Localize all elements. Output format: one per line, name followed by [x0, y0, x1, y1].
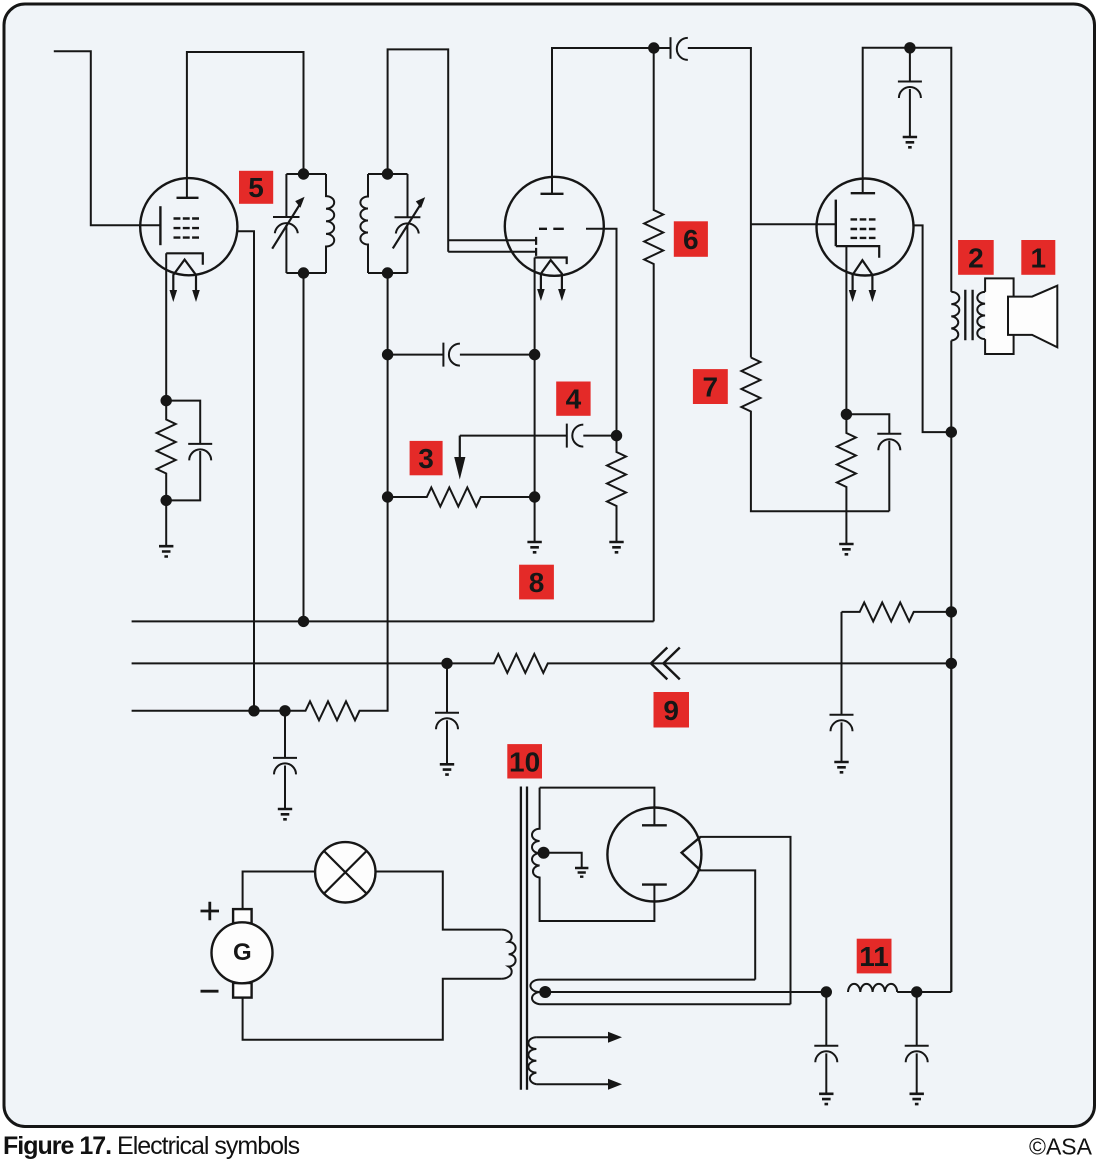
arrow onto potentiometer R3 — [459, 436, 461, 460]
V3 grid dashes — [851, 219, 876, 238]
svg-text:8: 8 — [529, 567, 545, 598]
output transformer T2 and speaker assembly — [951, 278, 1057, 354]
node tank2 top — [382, 168, 393, 179]
node bus3 V1 output — [248, 705, 259, 716]
inductor L1 — [326, 174, 334, 273]
V3 filament with emission arrows — [853, 260, 873, 291]
capacitor C3 coupling tank2 to V2 cathode — [388, 343, 444, 367]
node V3 plate bypass — [904, 42, 915, 53]
wire to tube V3 grid — [751, 223, 836, 225]
filter choke item 11 and capacitors — [814, 663, 951, 1104]
resistor R7 lower lead and cathode network V3 — [741, 358, 889, 512]
wire tube V2 plate to node — [552, 48, 671, 194]
node V2 cathode cap — [529, 349, 540, 360]
bus line 3 with resistor R-bus3 — [132, 273, 388, 720]
wire tube V2 cathode down — [534, 258, 536, 543]
tank circuit 2: inductor L2 + variable capacitor C2 — [360, 174, 425, 273]
resistor R6 line — [644, 48, 663, 621]
wire V1 cathode to ground — [165, 500, 167, 546]
HV center tap to ground — [544, 853, 582, 868]
node V2 plate coupling — [648, 42, 659, 53]
node tank1 bottom — [298, 267, 309, 278]
tube V1 pentode — [140, 178, 237, 302]
wire tube V1 plate to tank L1/C1 top — [187, 52, 304, 198]
rectifier tube V4 — [607, 808, 701, 902]
svg-text:4: 4 — [566, 384, 582, 415]
speaker driver body — [985, 278, 1014, 354]
wire speaker primary down to filter node — [950, 341, 952, 993]
node bus1 tank feed — [298, 616, 309, 627]
node HV center tap — [538, 847, 550, 859]
tube V2 triode-detector — [505, 177, 604, 301]
wire tube V3 plate output to speaker line — [913, 225, 951, 432]
V1 filament with emission arrows — [173, 260, 196, 291]
T2 primary winding — [951, 292, 959, 341]
capacitor C-k1 tube V1 cathode bypass — [166, 401, 212, 444]
ground below bus2 cap — [440, 764, 454, 774]
variable capacitor C2 — [395, 174, 421, 217]
wire generator + terminal to lamp — [243, 872, 316, 910]
svg-text:3: 3 — [418, 443, 434, 474]
node bus2 cap — [441, 658, 452, 669]
C1 adjustment arrow — [272, 203, 300, 248]
resistor R-k1 tube V1 cathode — [157, 401, 176, 501]
generator and pilot lamp loop — [201, 842, 502, 1040]
capacitor C-b2 below bus2 — [435, 663, 459, 712]
bus line 2 with resistor R9a — [132, 654, 952, 673]
V4 anode bars — [642, 825, 667, 884]
svg-text:G: G — [233, 939, 252, 966]
V3 grid bar — [835, 200, 837, 247]
capacitor C-coup top between V2 and V3 stages — [670, 37, 672, 59]
T1 core — [521, 787, 527, 1090]
T2 core — [965, 290, 972, 340]
T2 secondary winding on driver edge — [977, 292, 985, 339]
node tank1 top — [298, 168, 309, 179]
V2 heater bracket — [535, 258, 567, 265]
capacitor C4 — [566, 424, 568, 448]
V3 plate bar — [851, 192, 875, 194]
node speaker line upper — [946, 426, 957, 437]
svg-text:Figure 17. Electrical symbols: Figure 17. Electrical symbols — [3, 1132, 300, 1160]
tank1 box top and bottom — [286, 174, 326, 273]
T1 primary winding — [502, 930, 516, 979]
resistor R-k3 — [837, 414, 856, 544]
node pot left — [382, 491, 393, 502]
V1 heater bracket — [166, 253, 203, 264]
filter capacitor C-f1 — [814, 992, 838, 1046]
wire tank1 bottom to bus B+ — [303, 273, 305, 621]
bus line 1 (B+) — [132, 620, 654, 622]
generator body G — [212, 922, 273, 983]
label 6 — [674, 221, 708, 256]
label 3 — [410, 441, 443, 475]
resistor R-g2 below node 617 — [607, 436, 626, 542]
svg-text:2: 2 — [968, 242, 984, 273]
svg-text:©ASA: ©ASA — [1029, 1134, 1093, 1160]
svg-text:9: 9 — [663, 695, 679, 726]
wire tube V1 output down to bus 3 — [237, 231, 254, 711]
T1 HV secondary winding — [540, 788, 655, 826]
power transformer T1 — [502, 787, 827, 1090]
ground below V3 cathode — [839, 544, 853, 554]
ground below C-fb — [834, 762, 848, 772]
svg-text:6: 6 — [683, 224, 699, 255]
break chevrons item 9 — [651, 648, 680, 680]
wire V2 grid double lead upper — [448, 239, 536, 241]
generator terminal blocks — [233, 909, 252, 923]
node V3 cathode — [841, 409, 852, 420]
V2 grid dashes — [539, 228, 564, 230]
svg-text:5: 5 — [248, 172, 264, 203]
label 11 — [857, 939, 892, 974]
ground below V1 cathode network — [159, 546, 173, 556]
filter capacitor C-f2 — [905, 992, 929, 1046]
label 4 — [556, 382, 590, 416]
potentiometer R3 — [388, 488, 535, 507]
V4 filament notch — [682, 837, 701, 871]
ground below R-g2 — [609, 542, 623, 552]
wire tube V3 plate riser to speaker feed — [863, 48, 952, 292]
plus sign — [201, 902, 220, 920]
wire coupling cap to R6 top and down to R7 — [688, 48, 751, 358]
resistor R-fb top right — [842, 602, 952, 621]
V1 grid dashes — [174, 219, 200, 238]
lamp — [315, 842, 375, 902]
node pot right — [529, 491, 540, 502]
node C4 to grid resistor — [611, 430, 622, 441]
label 2 — [958, 240, 994, 275]
V1 grid bar — [159, 206, 161, 245]
V3 heater bracket — [836, 246, 879, 258]
svg-text:10: 10 — [509, 746, 540, 777]
node speaker line feedback — [946, 606, 957, 617]
label 5 — [239, 171, 273, 204]
capacitor C-fb right — [830, 612, 854, 715]
inductor L2 — [360, 174, 368, 273]
V1 plate bar — [177, 197, 199, 199]
node detector input — [382, 349, 393, 360]
tube V3 output pentode — [817, 179, 914, 303]
node filter cap 2 — [911, 986, 922, 997]
svg-text:11: 11 — [859, 941, 889, 972]
variable capacitor C1 — [273, 174, 300, 217]
minus sign — [201, 990, 219, 993]
wire V3 cathode down — [845, 246, 847, 414]
label 8 — [519, 565, 554, 600]
label 10 — [507, 744, 542, 778]
svg-text:7: 7 — [703, 372, 719, 403]
T1 heater winding with arrows — [528, 1037, 536, 1084]
wire V2 grid double lead lower — [448, 251, 536, 253]
wire generator - terminal to transformer primary bottom — [243, 979, 502, 1040]
tank circuit 1: variable capacitor C1 + inductor L1 — [272, 174, 334, 273]
node bus3 cap — [279, 705, 290, 716]
ground below bus3 cap — [278, 809, 292, 819]
label 9 — [654, 692, 690, 728]
svg-text:1: 1 — [1031, 242, 1047, 273]
wire tank2 top to tube V2 grid feed — [388, 49, 449, 251]
node speaker line bus2 — [946, 658, 957, 669]
capacitor C-k3 bypass — [846, 414, 901, 433]
wire tube V2 grid-side output down — [586, 229, 617, 436]
capacitor C-b top right to ground — [898, 48, 922, 82]
wire lamp to transformer primary top — [376, 872, 502, 930]
node filter cap 1 — [821, 986, 832, 997]
V4 filament leads to heater winding — [700, 837, 791, 1004]
speaker horn — [1008, 286, 1057, 348]
node heater center tap — [539, 986, 551, 998]
red number labels — [239, 171, 1055, 974]
node V1 cathode top — [161, 395, 172, 406]
C2 adjustment arrow — [393, 204, 421, 249]
ground below V2 cathode — [527, 542, 541, 552]
node tank2 bottom — [382, 267, 393, 278]
capacitor C-b3 below bus3 — [273, 711, 297, 758]
wire antenna input top-left — [54, 51, 160, 225]
label 7 — [693, 369, 728, 404]
V2 filament with emission arrows — [541, 260, 562, 290]
V2 plate bar — [541, 193, 564, 195]
label 1 — [1021, 240, 1055, 275]
V2 grid vertical ticks — [535, 237, 537, 256]
tank2 box top and bottom — [368, 174, 408, 273]
wire tube V1 cathode down — [165, 253, 167, 400]
choke L11 — [848, 984, 897, 992]
node V1 cathode bottom — [161, 495, 172, 506]
wire choke to right riser — [897, 663, 951, 992]
wire pot line with corner and arrow — [460, 435, 567, 437]
T1 rectifier heater winding with center tap — [530, 980, 539, 1005]
ground top right — [903, 137, 917, 147]
